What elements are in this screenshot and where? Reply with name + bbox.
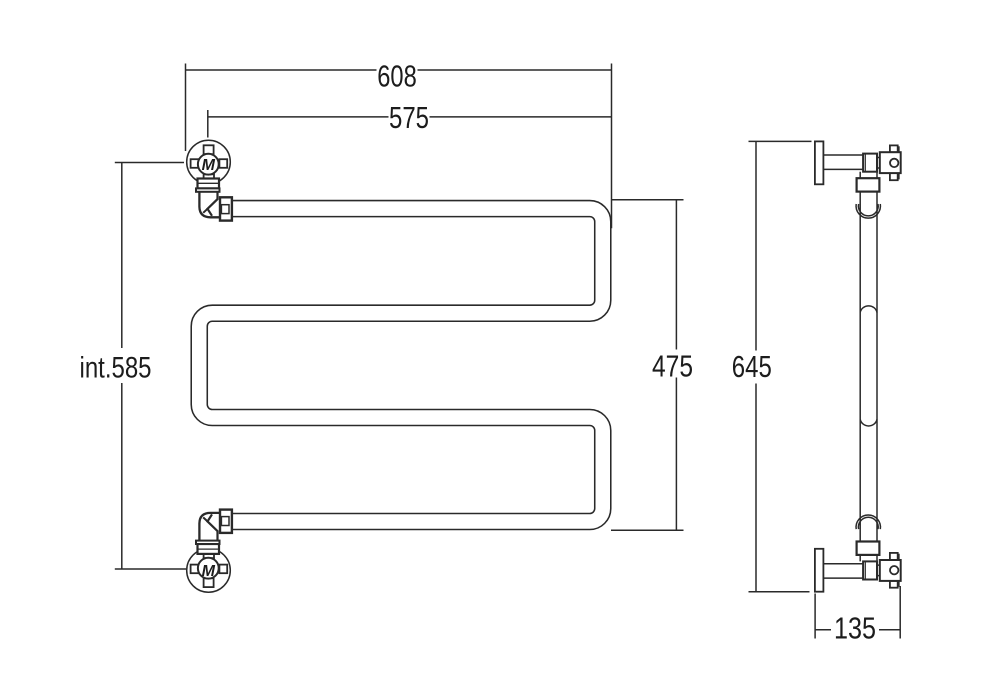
side capsule top arc (860, 306, 877, 313)
side bottom loop outer arc (856, 515, 880, 529)
serpentine pipe outer (199, 209, 603, 522)
dimension 608 left extension (185, 64, 187, 152)
valve top tab lip (898, 146, 900, 151)
svg-text:475: 475 (652, 349, 693, 384)
dimension 608 line (186, 69, 612, 71)
bracket arm (823, 155, 863, 169)
union nut (857, 542, 880, 555)
union body (198, 179, 220, 189)
pipe piece (860, 555, 877, 562)
valve inner circle (198, 558, 219, 579)
side top loop outer arc (856, 204, 880, 218)
elbow block (863, 154, 877, 172)
elbow block (863, 561, 877, 579)
valve bottom tab (204, 174, 214, 180)
elbow miter line (203, 517, 207, 521)
dimension 475 bottom extension (611, 529, 684, 531)
elbow block inner line (864, 561, 866, 579)
union midline (198, 548, 220, 550)
valve top tab (204, 145, 214, 154)
elbow outer contour (199, 192, 220, 218)
dimension 135 left extension (814, 594, 816, 639)
union midline (198, 182, 220, 184)
valve right tab (219, 565, 227, 574)
valve bottom tab lip (898, 554, 900, 559)
valve top tab (890, 581, 898, 588)
svg-text:M: M (202, 563, 216, 580)
valve left tab (191, 159, 200, 168)
valve outer circle (187, 140, 231, 184)
valve right tab (219, 159, 227, 168)
valve body (880, 152, 901, 173)
side top loop inner arc (858, 204, 878, 216)
side view (856, 192, 880, 542)
side capsule bottom arc (860, 419, 877, 426)
valve bottom tab (890, 553, 898, 560)
dimension 645 bottom extension (749, 591, 810, 593)
elbow block inner line (864, 154, 866, 172)
valve top tab lip (898, 582, 900, 587)
dimension 575 line (208, 116, 612, 118)
wall flange (815, 549, 824, 592)
union body (198, 544, 220, 554)
valve bottom tab lip (898, 174, 900, 179)
side top bracket group (815, 141, 901, 191)
elbow nut (220, 197, 232, 220)
side bottom loop inner arc (858, 517, 878, 529)
valve outer circle (187, 549, 231, 593)
svg-text:645: 645 (732, 349, 772, 384)
side vertical pipe (860, 192, 877, 542)
elbow nut facet (221, 517, 229, 526)
front bottom valve group (mirrored) (187, 541, 231, 593)
svg-text:608: 608 (377, 59, 417, 94)
dimension 475 line (675, 200, 677, 531)
side bottom bracket group (mirrored) (815, 542, 901, 592)
elbow inner contour (208, 514, 218, 541)
dimension 575 left extension (207, 110, 209, 138)
wall flange (815, 141, 824, 184)
front bottom elbow group (mirrored) (199, 510, 232, 541)
valve circle (890, 159, 898, 167)
elbow miter line (203, 209, 207, 213)
valve top tab (890, 145, 898, 152)
dimension 475 top extension (611, 199, 684, 201)
dimension int.585 bottom extension (115, 568, 186, 570)
valve inner circle (198, 154, 219, 175)
elbow nut (220, 510, 232, 533)
dimension int.585 top extension (115, 162, 184, 164)
valve stem connectors (877, 158, 880, 169)
dimension 135 line (815, 629, 900, 631)
valve bottom tab (204, 552, 214, 558)
valve body (880, 560, 901, 581)
pipe piece (860, 172, 877, 179)
union flange (196, 188, 220, 191)
valve left tab (191, 565, 200, 574)
valve top tab (204, 578, 214, 587)
svg-text:135: 135 (834, 611, 876, 646)
valve circle (890, 566, 898, 574)
dimension int.585 line (121, 163, 123, 570)
valve stem connectors (877, 565, 880, 576)
elbow inner contour (208, 192, 218, 216)
dimension 645 top extension (749, 140, 812, 142)
serpentine pipe inner white (199, 209, 603, 522)
svg-text:M: M (202, 157, 216, 174)
dimension 135 right extension (899, 586, 901, 639)
dimension 645 line (755, 141, 757, 591)
dimension 608/575 right extension (611, 64, 613, 229)
svg-text:int.585: int.585 (80, 351, 152, 384)
elbow outer contour (199, 513, 220, 541)
union nut (857, 178, 880, 191)
valve bottom tab (890, 173, 898, 180)
elbow nut facet (221, 205, 229, 214)
front top valve group (187, 140, 232, 220)
union flange (196, 541, 220, 544)
bracket arm (823, 564, 863, 578)
svg-text:575: 575 (389, 100, 429, 135)
